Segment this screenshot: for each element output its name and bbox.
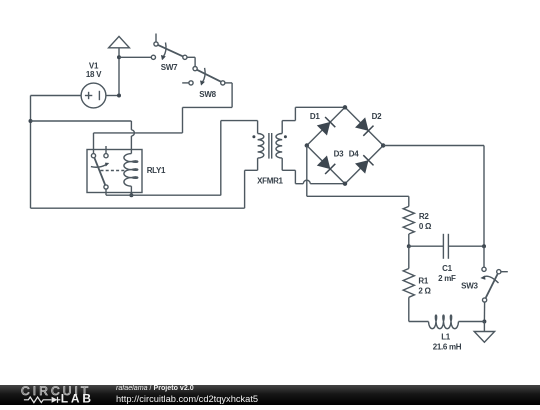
relay RLY1 coil [124, 121, 138, 195]
relay RLY1 lever [94, 158, 105, 185]
switch SW3 [461, 246, 508, 302]
svg-text:D2: D2 [372, 112, 382, 121]
diode D3 [318, 150, 344, 174]
inductor L1 [409, 315, 485, 351]
footer credit text [116, 384, 194, 392]
switch SW8 [182, 67, 225, 100]
relay RLY1 NO terminal [104, 185, 108, 189]
wire to SW7 left terminal [119, 56, 151, 58]
node junction left rail [29, 119, 33, 123]
svg-text:0 Ω: 0 Ω [419, 222, 432, 231]
resistor R1 [403, 246, 431, 321]
wire V1 right lead [106, 95, 119, 97]
node bridge left [305, 143, 309, 147]
ground GND (top-left node symbol) [109, 36, 130, 95]
svg-text:18 V: 18 V [86, 70, 102, 79]
relay RLY1 box [87, 150, 142, 193]
transformer XFMR1 primary polarity dot [252, 135, 255, 138]
node junction relay coil bottom [129, 193, 133, 197]
transformer XFMR1 label [257, 177, 283, 186]
transformer XFMR1 secondary polarity dot [284, 135, 287, 138]
wire SW3 to bottom node [483, 302, 485, 321]
node junction R2/C1/R1 [407, 244, 411, 248]
node junction V1 right [117, 94, 121, 98]
bridge edge left-top [307, 107, 345, 145]
wire bottom rail to transformer [31, 170, 258, 208]
svg-text:RLY1: RLY1 [147, 166, 166, 175]
relay RLY1 dashed link [101, 170, 126, 172]
svg-text:R1: R1 [418, 277, 428, 286]
wire left vertical rail [30, 96, 32, 209]
wire bridge right corner to SW3 rail [383, 146, 484, 247]
node bridge right [381, 143, 385, 147]
node bridge bottom [343, 182, 347, 186]
relay RLY1 label [147, 166, 166, 175]
svg-text:R2: R2 [419, 212, 429, 221]
ground (bottom right) [474, 322, 494, 343]
diode D1 [310, 112, 335, 134]
node junction at SW7 branch [117, 55, 121, 59]
switch SW7 [151, 34, 187, 72]
wire secondary top to bridge [282, 107, 345, 120]
transformer XFMR1 secondary winding [276, 121, 282, 171]
svg-text:2 Ω: 2 Ω [418, 287, 431, 296]
wire relay bottom net [106, 121, 258, 196]
relay RLY1 common terminal [91, 154, 95, 158]
wire secondary bottom to bridge [282, 170, 345, 183]
svg-text:D3: D3 [334, 150, 344, 159]
svg-text:2 mF: 2 mF [438, 274, 456, 283]
wire V1 left lead [31, 95, 82, 97]
bridge edge bottom-right [345, 146, 383, 184]
diode D2 [356, 112, 382, 136]
transformer XFMR1 primary winding [258, 121, 264, 171]
svg-text:LAB: LAB [61, 391, 94, 405]
diode D4 [349, 150, 374, 173]
svg-text:D4: D4 [349, 150, 359, 159]
node bridge top [343, 105, 347, 109]
wire bridge left corner down to R2 [307, 146, 409, 207]
svg-text:21.6 mH: 21.6 mH [433, 342, 462, 351]
svg-text:SW7: SW7 [161, 63, 178, 72]
relay RLY1 NC terminal [104, 146, 108, 158]
svg-text:SW3: SW3 [461, 282, 478, 291]
svg-text:C1: C1 [442, 264, 452, 273]
wire SW8 to relay common [94, 83, 233, 154]
logo CIRCUIT [0, 385, 270, 408]
footer bar [0, 385, 540, 406]
capacitor C1 [409, 234, 484, 283]
bridge edge top-right [345, 107, 383, 145]
node junction SW3/L1/ground [482, 320, 486, 324]
svg-text:SW8: SW8 [199, 90, 216, 99]
wire junction to relay coil [31, 120, 132, 122]
node junction C1/SW3 [482, 244, 486, 248]
resistor R2 [403, 206, 432, 246]
transformer XFMR1 core [269, 133, 272, 159]
relay RLY1 actuator arrow [91, 163, 109, 167]
svg-text:D1: D1 [310, 112, 320, 121]
svg-text:L1: L1 [441, 333, 451, 342]
voltage source V1 [81, 61, 106, 108]
wire SW7 to SW8 [187, 57, 195, 66]
bridge edge left-bottom [307, 146, 345, 184]
svg-text:XFMR1: XFMR1 [257, 177, 283, 186]
